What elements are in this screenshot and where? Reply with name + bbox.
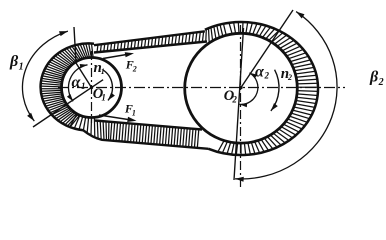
beta1 arrow top [59,31,68,36]
svg-text:2: 2 [231,95,237,105]
svg-text:2: 2 [378,77,384,88]
wrap angle beta1 arc [22,31,67,121]
wrap-limit radius line, left pulley lower-left [33,80,103,127]
svg-text:1: 1 [101,93,106,103]
belt hatch: bottom span ticks [70,114,199,148]
svg-text:1: 1 [132,109,136,118]
rotation arrow n2 [271,70,279,111]
svg-text:2: 2 [287,73,292,82]
vertical dash-dot axis through O1 [91,51,93,123]
wrap-limit radius line, left pulley top [74,27,92,88]
wire: top belt span outer line [94,31,205,45]
belt hatch: right wrap ticks [218,22,318,155]
pulley 1 (left) [62,58,122,118]
belt hatch: left wrap ticks [41,44,93,128]
svg-text:1: 1 [19,62,24,73]
alpha1 arrow top [80,64,88,68]
force F2 arrow [103,54,128,58]
wrap angle beta2 arc [235,12,337,179]
svg-text:1: 1 [81,81,86,91]
wire: bottom belt span outer line [83,130,208,149]
svg-text:β: β [369,68,379,85]
wire: bottom belt span inner line [95,121,202,130]
horizontal dash-dot axis O1-O2 [58,87,345,89]
svg-text:1: 1 [101,67,105,76]
wrap-limit radius line, right pulley near-vertical [234,28,244,180]
svg-text:α: α [255,63,265,80]
beta2 arrow bottom [235,177,244,182]
node O1 center dot [90,86,93,89]
angle alpha2 arc [240,73,258,105]
alpha2 arrow top [250,73,258,79]
node O2 center dot [239,86,242,89]
pulley 2 (right) [185,33,298,143]
beta1 arrow bottom [27,113,34,121]
beta2 arrow top [296,12,304,19]
alpha2 arrow bottom [240,103,248,107]
wrap-limit radius line, right pulley upper-right [241,10,293,88]
svg-text:2: 2 [264,70,270,80]
wire: top belt span inner line [94,42,207,53]
svg-text:α: α [72,74,82,91]
belt: left wrap outer line [41,43,94,130]
svg-text:β: β [9,53,19,70]
vertical dash-dot axis through O2 [240,25,242,187]
rotation arrow n1 [103,70,113,101]
force F1 arrow [99,115,130,120]
belt: right wrap outer line [205,22,318,155]
angle alpha1 arc [68,65,87,102]
svg-text:2: 2 [132,64,137,73]
belt drive diagram [0,0,386,187]
belt hatch: top span ticks [97,24,226,53]
alpha1 arrow bottom [67,94,73,101]
